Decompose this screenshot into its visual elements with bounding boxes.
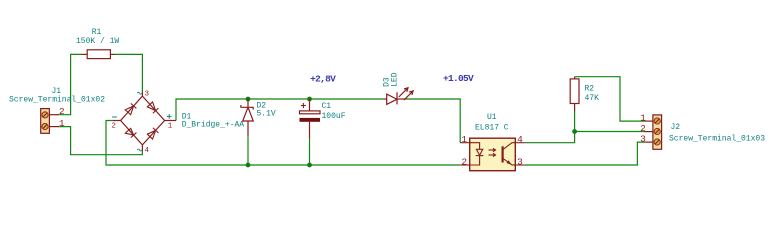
J2 screw pin 2	[654, 128, 660, 134]
svg-text:3: 3	[517, 156, 523, 167]
svg-text:4: 4	[517, 134, 523, 145]
D1 diode bottom-right	[147, 128, 158, 139]
svg-text:2: 2	[111, 122, 116, 130]
wire bridge pin2 to bottom rail to U1 pin2	[106, 121, 460, 166]
D1 pin name ~ top	[137, 92, 141, 94]
svg-text:2: 2	[59, 106, 65, 117]
D1 diode bottom-left	[125, 128, 136, 137]
svg-text:C1: C1	[322, 102, 332, 111]
D1 diode top-right	[147, 102, 158, 113]
optocoupler U1 body	[470, 138, 516, 171]
wire C1 bottom to bottom rail	[309, 138, 311, 165]
U1 coupling arrows	[489, 148, 496, 156]
svg-text:1: 1	[59, 118, 65, 129]
bridge rectifier D1 body	[113, 92, 176, 151]
svg-text:100uF: 100uF	[322, 112, 346, 121]
U1 internal LED	[470, 143, 484, 165]
wire R2 top to J2 pin1	[575, 77, 645, 121]
connector J1 Screw_Terminal_01x02	[41, 109, 60, 134]
svg-text:Screw_Terminal_01x03: Screw_Terminal_01x03	[669, 135, 765, 144]
svg-text:D_Bridge_+-AA: D_Bridge_+-AA	[182, 121, 245, 130]
label D3 reference (vertical)	[383, 77, 392, 87]
zener diode D2	[241, 99, 253, 136]
wire junction to J2 pin2	[575, 131, 645, 133]
wire U1 pin3 to J2 pin3	[525, 142, 645, 165]
svg-text:3: 3	[145, 90, 150, 98]
wire R2 bottom to junction	[574, 112, 576, 132]
wire D2 anode to bottom rail	[247, 136, 249, 165]
svg-text:+1.05V: +1.05V	[443, 73, 474, 84]
wire U1 pin4 to R2 junction	[525, 132, 575, 143]
svg-text:2: 2	[640, 123, 646, 134]
svg-text:LED: LED	[390, 72, 399, 87]
D1 pin name - left	[112, 116, 117, 118]
J2 screw pin 1	[654, 118, 660, 124]
svg-text:150K / 1W: 150K / 1W	[76, 37, 119, 46]
svg-text:5.1V: 5.1V	[257, 110, 276, 119]
wire bridge pin1 up to top rail	[176, 99, 383, 121]
LED D3	[383, 88, 413, 105]
svg-text:2: 2	[461, 156, 467, 167]
svg-text:3: 3	[640, 133, 646, 144]
J2 screw pin 3	[654, 139, 660, 145]
junction R2 / U1 pin4 / J2 pin2	[572, 129, 577, 134]
svg-text:1: 1	[640, 112, 646, 123]
svg-text:J1: J1	[51, 87, 61, 96]
connector J2 Screw_Terminal_01x03	[645, 115, 662, 149]
svg-text:R2: R2	[585, 84, 595, 93]
svg-text:U1: U1	[487, 113, 497, 122]
resistor R1	[82, 50, 115, 59]
wire J1 pin2 to R1 left	[59, 54, 81, 114]
capacitor C1	[300, 99, 321, 138]
junction bottom rail / C1	[307, 163, 312, 168]
svg-text:4: 4	[145, 147, 150, 155]
junction top rail / D2	[246, 97, 251, 102]
wire R1 right to bridge pin3	[115, 54, 143, 91]
svg-text:R1: R1	[92, 28, 102, 37]
wire LED cathode to U1 pin1	[405, 99, 461, 143]
C1 polarity plus	[301, 103, 306, 108]
label D3 value LED (vertical)	[390, 72, 399, 87]
D1 diode top-left	[125, 103, 136, 114]
svg-text:1: 1	[168, 122, 173, 130]
svg-text:J2: J2	[671, 123, 681, 132]
D1 pin name ~ bottom	[137, 149, 141, 151]
wire J1 pin1 to bridge pin4	[59, 127, 142, 155]
J1 screw pin 1	[42, 123, 48, 129]
D1 pin name + right	[167, 114, 172, 119]
J1 screw pin 2	[42, 112, 48, 118]
U1 pin stubs	[460, 143, 525, 165]
resistor R2	[570, 77, 579, 112]
svg-text:+2,8V: +2,8V	[310, 74, 336, 85]
svg-text:1: 1	[461, 134, 467, 145]
svg-text:Screw_Terminal_01x02: Screw_Terminal_01x02	[9, 96, 105, 105]
U1 phototransistor	[503, 143, 516, 165]
junction top rail / C1	[307, 97, 312, 102]
svg-text:47K: 47K	[585, 94, 600, 103]
svg-text:EL817 C: EL817 C	[475, 124, 509, 133]
junction bottom rail / D2	[246, 163, 251, 168]
